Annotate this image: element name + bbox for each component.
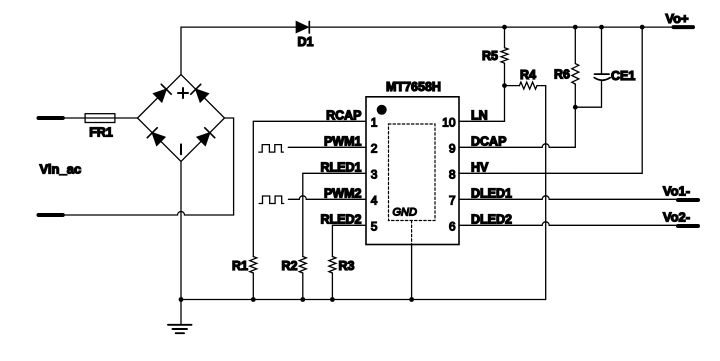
wire pin7 DLED1 to Vo1- with hop: [459, 196, 678, 200]
wire FR1 to bridge left vertex: [115, 117, 138, 119]
svg-text:RCAP: RCAP: [326, 108, 361, 122]
resistor R6: [572, 64, 579, 84]
svg-text:D1: D1: [298, 35, 314, 49]
terminal Vo2-: [678, 224, 698, 228]
svg-text:HV: HV: [471, 160, 489, 174]
svg-text:R4: R4: [520, 68, 536, 82]
IC internal dashed box: [389, 124, 436, 221]
wire R3 bottom to rail: [331, 273, 333, 300]
wire bridge bottom vertex to ground rail: [180, 162, 182, 300]
ground rail (bottom): [181, 299, 546, 301]
wire lower AC horizontal with hop over bridge ground stem: [63, 212, 234, 216]
svg-text:9: 9: [449, 142, 456, 156]
terminal AC input upper: [39, 116, 63, 120]
wire R6 branch from top rail: [574, 27, 576, 64]
junction bridge stem / rail: [179, 297, 184, 302]
diode bridge bottom-right: [197, 128, 215, 146]
wire IC GND to ground rail: [411, 245, 413, 300]
resistor R2: [299, 257, 306, 274]
junction R6 / CE1 / DCAP: [573, 105, 578, 110]
wire RLED1 pin3 to R2 top: [303, 173, 366, 256]
capacitor CE1 curved bottom plate: [594, 78, 610, 81]
junction IC GND / rail: [409, 297, 414, 302]
junction R3 / rail: [330, 297, 335, 302]
svg-text:R6: R6: [554, 68, 570, 82]
junction HV / top rail: [640, 25, 645, 30]
svg-text:5: 5: [371, 220, 378, 234]
wire bridge top vertex to top rail: [181, 27, 296, 74]
wire R4 right to ground branch corner: [537, 85, 546, 87]
wire PWM2 to pin4 with hop over R2 branch: [288, 196, 366, 200]
wire CE1 bottom lead: [575, 81, 601, 108]
wire R6 bottom to DCAP node: [574, 84, 576, 107]
junction R5 / top rail: [502, 25, 507, 30]
svg-text:R2: R2: [282, 259, 298, 273]
svg-text:10: 10: [442, 116, 456, 130]
wire R1 bottom to rail: [252, 273, 254, 300]
svg-text:RLED1: RLED1: [321, 160, 362, 174]
diode D1: [296, 22, 309, 34]
svg-text:7: 7: [449, 194, 456, 208]
svg-text:FR1: FR1: [89, 126, 113, 140]
diode bridge top-left: [154, 84, 172, 102]
wire RLED2 pin5 to R3 top: [332, 225, 366, 256]
svg-text:Vin_ac: Vin_ac: [40, 162, 82, 177]
wire lower AC vertical up to bridge right vertex: [225, 118, 234, 215]
svg-text:2: 2: [371, 142, 378, 156]
wire lower AC: terminal to bridge right vertex: [39, 213, 63, 217]
bridge rectifier diamond outline: [138, 75, 225, 162]
svg-text:3: 3: [371, 168, 378, 182]
resistor R4: [519, 82, 537, 89]
svg-text:Vo1-: Vo1-: [663, 184, 690, 199]
PWM2 waveform symbol: [259, 196, 284, 204]
svg-text:DLED2: DLED2: [471, 212, 512, 226]
wire RCAP pin1 to R1 top: [253, 121, 366, 256]
resistor R3: [329, 257, 336, 274]
svg-text:6: 6: [449, 220, 456, 234]
wire pin8 HV to right riser: [459, 172, 642, 174]
svg-text:PWM2: PWM2: [324, 186, 362, 200]
wire terminal to FR1: [63, 117, 85, 119]
diode bridge top-right: [191, 84, 209, 102]
wire PWM1 to pin2: [288, 146, 366, 148]
svg-text:Vo+: Vo+: [665, 11, 689, 26]
junction R6 / top rail: [573, 25, 578, 30]
svg-text:GND: GND: [393, 207, 418, 219]
wire DCAP node down to pin9 level: [574, 107, 576, 147]
svg-text:8: 8: [449, 168, 456, 182]
svg-text:PWM1: PWM1: [324, 134, 362, 148]
IC U1 MT7658H body: [366, 97, 459, 245]
wire pin9 DCAP with hop over R4 ground branch: [459, 144, 575, 148]
svg-text:R3: R3: [339, 259, 355, 273]
bridge minus mark: [180, 144, 182, 154]
wire pin6 DLED2 to Vo2- with hop: [459, 222, 678, 226]
wire R5 branch from top rail: [504, 27, 506, 48]
junction R1 / rail: [251, 297, 256, 302]
svg-text:RLED2: RLED2: [321, 212, 362, 226]
svg-text:Vo2-: Vo2-: [663, 210, 690, 225]
terminal Vo+: [674, 25, 694, 29]
wire R4 ground branch vertical down to rail: [545, 86, 547, 300]
terminal Vo1-: [678, 198, 698, 202]
junction R2 / rail: [300, 297, 305, 302]
svg-text:MT7658H: MT7658H: [386, 80, 441, 94]
svg-text:1: 1: [371, 116, 378, 130]
svg-text:DCAP: DCAP: [471, 134, 506, 148]
IC pin1 dot marker: [377, 105, 387, 115]
wire HV riser up to top rail: [641, 27, 643, 173]
diode bridge bottom-left: [147, 128, 165, 146]
wire top rail D1 to Vo+: [309, 26, 673, 28]
wire CE1 branch from top rail: [601, 27, 603, 74]
capacitor CE1 top plate: [595, 73, 610, 75]
ground symbol: [168, 300, 192, 334]
svg-text:DLED1: DLED1: [471, 186, 512, 200]
wire R5 bottom to LN node: [504, 63, 506, 85]
resistor R5: [501, 48, 508, 64]
svg-text:4: 4: [371, 194, 378, 208]
svg-text:R5: R5: [482, 49, 498, 63]
wire LN node down to pin10: [504, 86, 506, 122]
svg-text:LN: LN: [471, 108, 488, 122]
IC dashed GND lead: [411, 221, 413, 245]
fuse FR1: [85, 114, 115, 123]
junction R5 / R4 / LN: [502, 83, 507, 88]
svg-text:CE1: CE1: [611, 69, 635, 83]
junction CE1 / top rail: [599, 25, 604, 30]
svg-text:R1: R1: [232, 259, 248, 273]
bridge plus mark: [178, 88, 188, 98]
PWM1 waveform symbol: [259, 145, 284, 153]
wire LN node to R4: [505, 85, 520, 87]
wire pin10 LN: [459, 120, 505, 122]
wire R2 bottom to rail: [302, 273, 304, 300]
resistor R1: [250, 257, 257, 274]
